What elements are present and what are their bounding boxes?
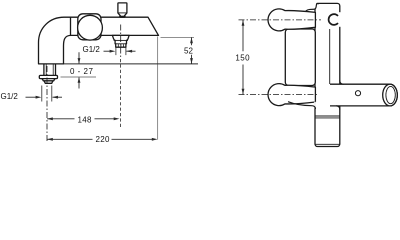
svg-text:148: 148 bbox=[78, 116, 92, 125]
svg-text:150: 150 bbox=[235, 54, 250, 63]
svg-text:0 - 27: 0 - 27 bbox=[70, 67, 94, 76]
svg-text:52: 52 bbox=[184, 47, 193, 56]
svg-text:G1/2: G1/2 bbox=[83, 45, 101, 54]
svg-text:220: 220 bbox=[96, 135, 110, 144]
svg-text:G1/2: G1/2 bbox=[1, 92, 19, 101]
